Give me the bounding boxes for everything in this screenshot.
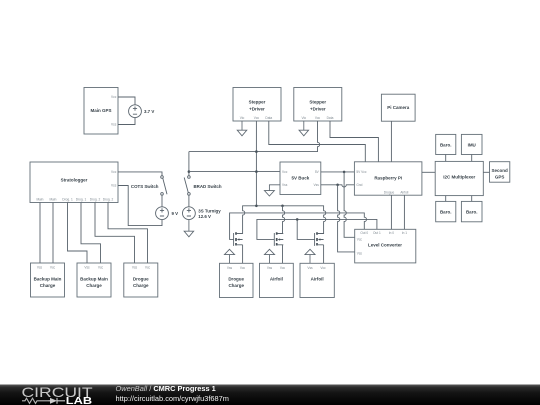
svg-text:Baro.: Baro. [466,210,478,215]
svg-text:3S Turnigy: 3S Turnigy [198,209,221,214]
wire stepper U2 Data to Raspberry Pi [330,121,378,162]
svg-text:Stepper: Stepper [309,100,326,105]
svg-text:Stratologger: Stratologger [61,177,88,182]
svg-text:Drogue: Drogue [133,277,149,282]
wire mux to Baro bottom right [471,196,473,202]
svg-text:Vcc: Vcc [240,266,246,270]
svg-text:Drog. 1: Drog. 1 [76,198,87,202]
wire IMU to mux [471,155,473,162]
svg-text:Charge: Charge [40,283,56,288]
svg-text:Drogue: Drogue [384,190,395,194]
svg-text:9 V: 9 V [172,211,179,216]
ground below V3 [184,220,194,237]
wire I2C Multiplexer to Second GPS [483,171,489,173]
svg-text:Airfoil: Airfoil [270,277,283,282]
node buck Vcc rail junction [255,170,258,173]
svg-text:Backup Main: Backup Main [34,277,62,282]
svg-text:Gnd: Gnd [356,183,362,187]
svg-text:Vss: Vss [307,266,313,270]
wire Gnd branch to Level Converter Vss [338,185,355,252]
svg-text:Baro.: Baro. [440,210,452,215]
svg-text:Vss: Vss [357,251,363,255]
transistor Q3 [315,232,324,246]
block Baro bottom right [461,201,482,221]
wire BRAD switch to V3 [188,195,190,207]
wire Stratologger Main to Backup1 Vss [39,203,41,264]
wire Raspberry Pi Drogue to In 0 [390,195,392,229]
wire Stratologger Drog.1 to Backup2 Vcc [81,203,101,264]
block I2C Multiplexer [435,161,483,195]
svg-text:Raspberry Pi: Raspberry Pi [374,175,402,180]
svg-text:Vss: Vss [282,183,288,187]
svg-text:In 0: In 0 [389,231,395,235]
svg-text:Second: Second [491,168,508,173]
svg-text:Main GPS: Main GPS [90,108,111,113]
svg-text:In 1: In 1 [402,231,408,235]
svg-text:Drogue: Drogue [228,277,244,282]
svg-text:BRAD Switch: BRAD Switch [194,184,222,189]
svg-text:Vcc: Vcc [98,266,104,270]
svg-text:Vcc: Vcc [111,170,117,174]
ground at 5V Buck Vss left [264,185,280,196]
ground flipped at Airfoil 1 Vss [264,249,274,263]
svg-text:Vcc: Vcc [111,95,117,99]
voltage source V1 3.7 V [129,105,155,118]
node 5V net junction [343,171,346,174]
block Pi Camera [381,94,415,121]
svg-text:Vss: Vss [37,266,43,270]
switch COTS [131,176,167,196]
block Stepper+Driver U1 [233,88,281,122]
svg-text:Vcc: Vcc [320,266,326,270]
block Drogue Charge left [124,263,158,297]
svg-text:Vcc: Vcc [145,266,151,270]
wire Out 1 net to Q3 gate [297,219,314,239]
voltage source V3 3S Turnigy 12.6 V [183,207,222,220]
wire mux to Baro bottom left [445,196,447,202]
svg-text:Vcc: Vcc [50,266,56,270]
svg-text:Backup Main: Backup Main [80,277,108,282]
ground flipped at Drogue Charge Vss [224,249,234,263]
wire Q3 source to Airfoil 2 Vcc [323,245,325,263]
svg-text:Data: Data [265,116,272,120]
svg-text:Main: Main [37,198,44,202]
node stepper Vcc rail junction [255,150,258,153]
wire Level Converter Out 0 to Q1 gate [230,213,367,240]
block Stepper+Driver U2 [294,88,342,122]
node Out 1 net junction Q3 gate [296,218,299,221]
wire Stratologger Drog.2 to DrogueL Vcc [108,203,148,264]
node Gnd net junction [336,184,339,187]
wire 5V branch to Level Converter Vcc [344,172,355,237]
svg-text:5V Vcc: 5V Vcc [356,170,367,174]
wire Stratologger Drog.2 to DrogueL Vss [95,203,135,264]
svg-text:COTS Switch: COTS Switch [131,184,159,189]
svg-text:Vcc: Vcc [282,170,288,174]
wire rail A branch to Q2 drain [278,206,285,234]
wire 12.6V rail to stepper Vcc pins [189,121,320,152]
svg-text:Vss: Vss [132,266,138,270]
ground below stepper U2 Vio [299,121,309,136]
block Stratologger [30,162,118,203]
svg-text:Vcc: Vcc [315,116,321,120]
wire Pi Camera to Raspberry Pi [390,121,392,162]
svg-text:http://circuitlab.com/cyrwjfu3: http://circuitlab.com/cyrwjfu3f687m [116,394,229,403]
svg-text:Vss: Vss [313,183,319,187]
node rail A junction Q2 drain [281,205,284,208]
ground flipped at Airfoil 2 Vss [305,249,315,263]
svg-text:+Driver: +Driver [249,107,265,112]
wire Raspberry Pi to I2C Multiplexer [422,171,435,173]
wire Level Converter Out 1 to Q2 gate [257,219,377,239]
svg-text:Out 1: Out 1 [373,231,381,235]
wire 12.6V rail A to MOSFET drains [237,206,326,234]
node battery positive junction [188,170,191,173]
block Backup Main Charge 2 [77,263,111,297]
footer bar [0,384,540,405]
wire Main GPS Vss to V1 [118,118,135,125]
voltage source V2 9 V [156,207,179,220]
svg-text:12.6 V: 12.6 V [198,214,211,219]
block Airfoil 2 [300,263,334,297]
svg-text:Pi Camera: Pi Camera [387,105,410,110]
svg-text:Drog. 2: Drog. 2 [90,198,101,202]
svg-text:Vcc: Vcc [357,237,363,241]
svg-text:Vss: Vss [84,266,90,270]
svg-text:5V Buck: 5V Buck [292,176,310,181]
node battery positive [188,152,190,176]
svg-text:Vss: Vss [111,123,117,127]
wire stepper U1 Vcc down feed [255,121,257,206]
transistor Q1 [234,232,243,246]
svg-text:3.7 V: 3.7 V [144,109,154,114]
svg-text:Vcc: Vcc [254,116,260,120]
svg-text:Charge: Charge [86,283,102,288]
switch BRAD [184,176,222,196]
wire Stratologger Main to Backup1 Vcc [52,203,54,264]
svg-text:GPS: GPS [495,175,505,180]
svg-text:+Driver: +Driver [310,107,326,112]
svg-text:Level Converter: Level Converter [368,242,402,247]
block Main GPS [84,88,118,135]
wire Raspberry Pi Airfoil to In 1 [403,195,405,229]
wire Stratologger Drog.1 to Backup2 Vss [68,203,88,264]
transistor Q2 [274,232,283,246]
block Drogue Charge middle [220,263,254,297]
svg-text:Data: Data [327,116,334,120]
block Second GPS [490,162,510,183]
block 5V Buck [280,162,321,195]
block IMU [461,134,482,154]
svg-text:I2C Multiplexer: I2C Multiplexer [443,175,475,180]
ground below stepper U1 Vio [237,121,247,136]
wire Baro top to mux [445,155,447,162]
svg-text:Drog. 2: Drog. 2 [103,198,114,202]
svg-text:Vss: Vss [111,184,117,188]
wire 5V Buck 5V to Raspberry Pi 5V [321,171,355,173]
svg-text:Vcc: Vcc [280,266,286,270]
svg-text:Airfoil: Airfoil [400,190,408,194]
svg-text:IMU: IMU [468,143,476,148]
svg-text:Vio: Vio [240,116,245,120]
svg-text:Stepper: Stepper [249,100,266,105]
svg-text:OwenBall / CMRC Progress 1: OwenBall / CMRC Progress 1 [116,384,216,393]
wire Main GPS Vcc to V1 [118,97,135,105]
wire 5V Buck Vss to Raspberry Pi Gnd [321,185,355,187]
svg-text:Charge: Charge [228,283,244,288]
wire COTS switch to V2 [161,195,163,207]
wire battery node to 5V Buck Vcc [189,171,280,173]
node rail A junction Q1 feed [255,205,258,208]
block Level Converter [355,229,416,263]
block Airfoil 1 [260,263,294,297]
block Raspberry Pi [354,162,422,195]
svg-text:Airfoil: Airfoil [311,277,324,282]
block Backup Main Charge 1 [31,263,65,297]
svg-text:Vss: Vss [267,266,273,270]
wire Q2 source to Airfoil 1 Vcc [282,245,284,263]
svg-text:Vio: Vio [302,116,307,120]
svg-text:Drog. 1: Drog. 1 [62,198,73,202]
svg-text:Vss: Vss [227,266,233,270]
svg-text:Main: Main [50,198,57,202]
wire Stratologger Vcc to COTS switch [118,172,162,176]
block Baro bottom left [436,201,456,221]
wire Q1 source to Drogue Charge Vcc [242,245,244,263]
wire V2 negative to Stratologger Vss [118,186,162,226]
block Baro top [436,134,456,154]
svg-text:LAB: LAB [66,396,92,405]
svg-text:Charge: Charge [133,283,149,288]
svg-text:Baro.: Baro. [440,143,452,148]
svg-text:Out 0: Out 0 [360,231,368,235]
wire stepper U1 Data to Raspberry Pi [269,121,366,162]
